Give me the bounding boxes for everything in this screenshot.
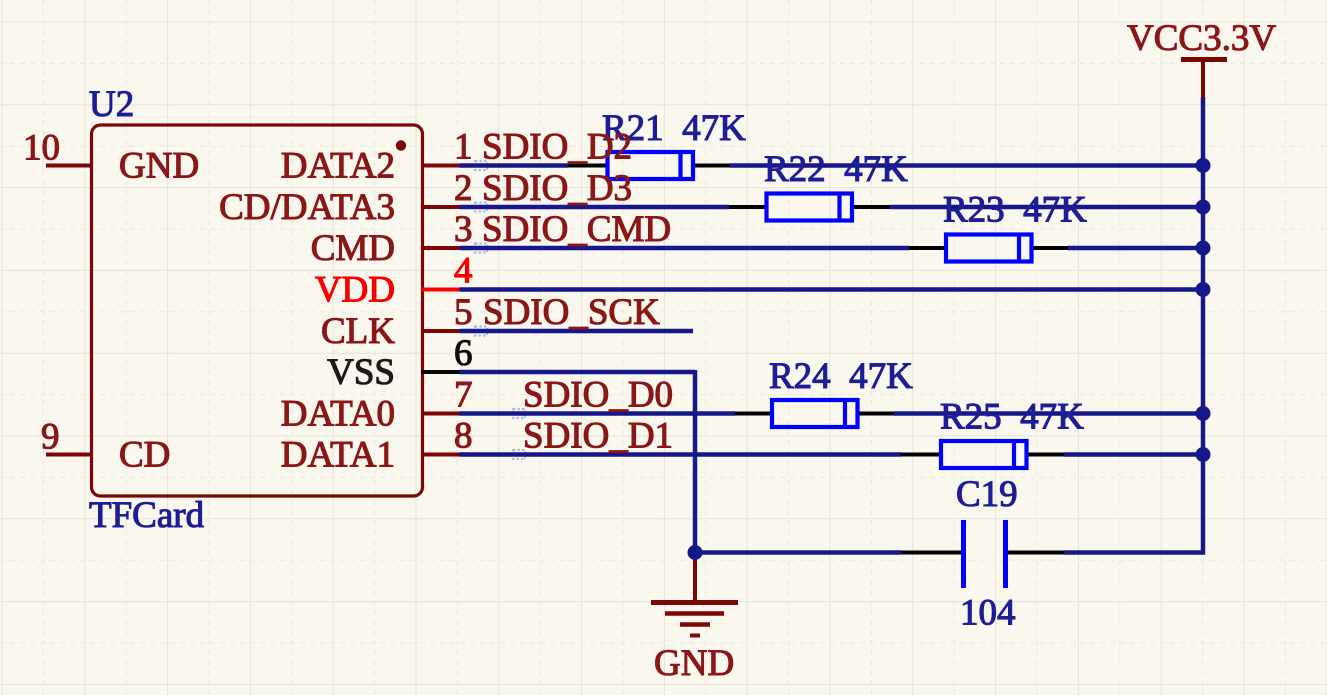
svg-text:GND: GND [119,146,199,187]
svg-text:SDIO_CMD: SDIO_CMD [482,209,671,250]
svg-text:4: 4 [454,251,473,292]
svg-text:DATA2: DATA2 [281,146,395,187]
svg-text:TFCard: TFCard [89,495,205,536]
svg-text:R24 47K: R24 47K [769,356,913,397]
svg-text:7: 7 [454,375,473,416]
svg-text:C19: C19 [956,474,1018,515]
svg-text:2: 2 [454,168,473,209]
svg-text:GND: GND [654,643,734,684]
svg-text:CD/DATA3: CD/DATA3 [219,187,395,228]
svg-text:SDIO_D2: SDIO_D2 [482,127,632,168]
svg-text:R25 47K: R25 47K [940,397,1084,438]
svg-text:SDIO_SCK: SDIO_SCK [483,292,660,333]
svg-text:R23 47K: R23 47K [943,190,1087,231]
svg-text:VSS: VSS [327,352,395,393]
svg-text:3: 3 [454,209,473,250]
svg-text:VCC3.3V: VCC3.3V [1127,18,1276,59]
svg-text:CMD: CMD [311,228,395,269]
svg-text:5: 5 [454,292,473,333]
svg-text:104: 104 [960,593,1016,634]
svg-text:CLK: CLK [321,311,395,352]
svg-text:8: 8 [454,416,473,457]
svg-text:6: 6 [454,333,473,374]
svg-text:1: 1 [454,127,473,168]
svg-text:DATA0: DATA0 [281,394,395,435]
svg-text:R22 47K: R22 47K [764,149,908,190]
svg-text:VDD: VDD [315,270,395,311]
svg-text:U2: U2 [89,84,134,125]
svg-text:SDIO_D3: SDIO_D3 [482,168,632,209]
svg-text:DATA1: DATA1 [281,435,395,476]
svg-text:CD: CD [119,435,170,476]
svg-text:10: 10 [23,128,60,169]
svg-text:SDIO_D0: SDIO_D0 [523,375,673,416]
svg-text:SDIO_D1: SDIO_D1 [523,416,673,457]
svg-text:9: 9 [41,417,60,458]
